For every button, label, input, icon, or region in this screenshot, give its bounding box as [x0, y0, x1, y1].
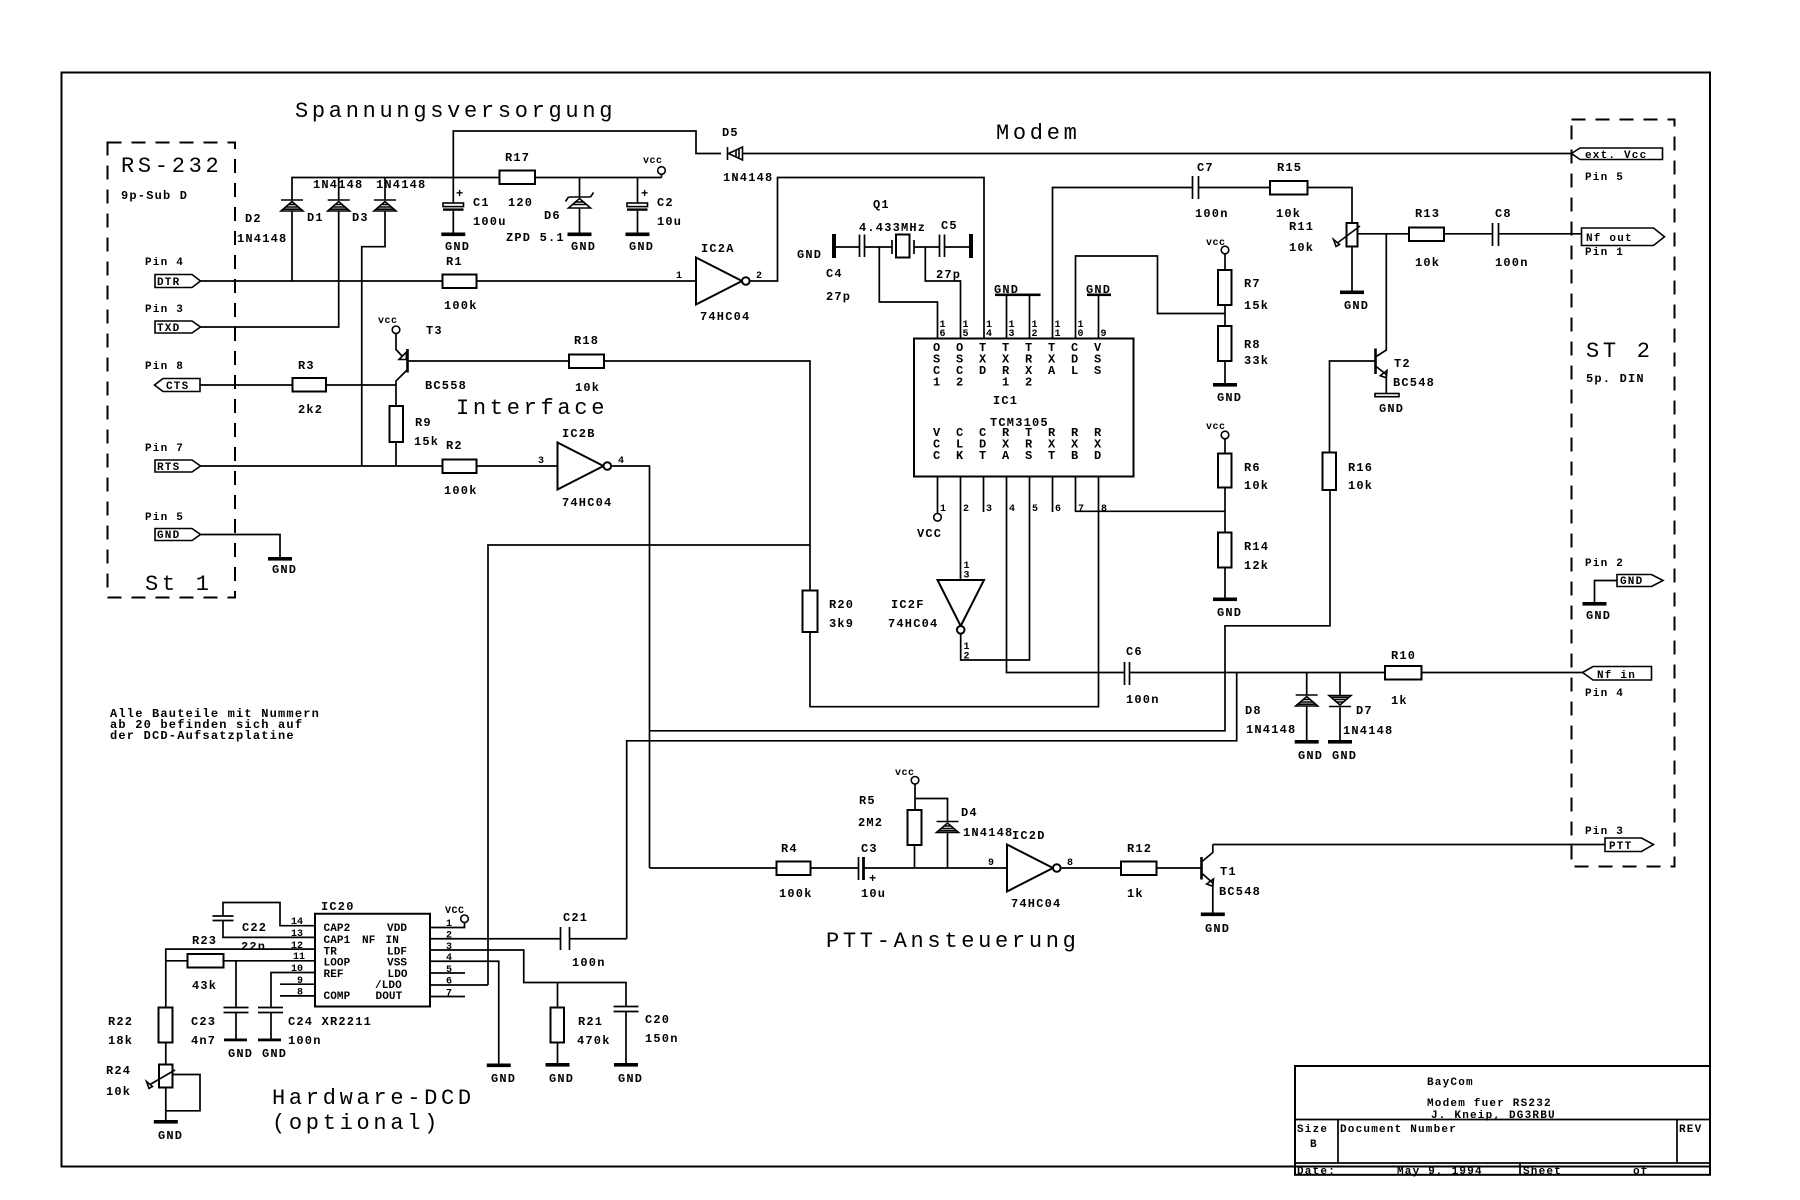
svg-text:C3: C3 — [861, 842, 878, 856]
svg-text:2: 2 — [1025, 376, 1033, 390]
svg-text:REV: REV — [1679, 1124, 1702, 1136]
svg-text:Pin 8: Pin 8 — [145, 361, 184, 373]
power symbol VCC (IC20 pin1) — [430, 906, 468, 928]
svg-text:C8: C8 — [1495, 207, 1512, 221]
svg-text:Nf in: Nf in — [1597, 670, 1636, 682]
wire R6 to R14 with tap to IC1 pin7 — [1076, 477, 1226, 533]
svg-text:A: A — [1002, 449, 1010, 463]
svg-text:8: 8 — [297, 988, 303, 999]
svg-text:T: T — [979, 449, 987, 463]
svg-text:9: 9 — [1101, 329, 1107, 340]
svg-text:Pin 1: Pin 1 — [1585, 247, 1624, 259]
ground (T1 emitter) — [1201, 913, 1230, 937]
resistor R9 — [390, 406, 440, 449]
svg-text:1: 1 — [676, 271, 682, 282]
svg-text:R24: R24 — [106, 1064, 131, 1078]
svg-text:Hardware-DCD: Hardware-DCD — [272, 1086, 475, 1111]
svg-text:22n: 22n — [241, 940, 266, 954]
resistor R4 — [777, 842, 813, 901]
svg-text:1: 1 — [1002, 376, 1010, 390]
svg-text:GND: GND — [262, 1047, 287, 1061]
svg-text:150n: 150n — [645, 1032, 679, 1046]
svg-text:L: L — [1071, 364, 1079, 378]
wire crystal to C5 — [914, 246, 940, 248]
capacitor C2 — [627, 178, 682, 233]
svg-text:4.433MHz: 4.433MHz — [859, 221, 926, 235]
svg-text:D: D — [979, 364, 987, 378]
ground wall (crystal left) — [797, 234, 836, 262]
wire R7 to R8 — [1224, 305, 1226, 326]
svg-text:R6: R6 — [1244, 461, 1261, 475]
svg-text:C6: C6 — [1126, 645, 1143, 659]
connector box St 1 (RS-232) dashed — [108, 143, 236, 598]
svg-text:Modem fuer RS232: Modem fuer RS232 — [1427, 1098, 1552, 1110]
svg-text:R18: R18 — [574, 334, 599, 348]
svg-text:10u: 10u — [657, 215, 682, 229]
svg-text:100k: 100k — [444, 299, 478, 313]
wire GND flag Pin2 to ground — [1595, 581, 1618, 603]
svg-text:1N4148: 1N4148 — [1246, 723, 1296, 737]
svg-text:BC548: BC548 — [1219, 885, 1261, 899]
svg-text:3: 3 — [986, 504, 992, 515]
svg-text:B: B — [1071, 449, 1079, 463]
wire R15 to R11 pot — [1308, 188, 1353, 224]
title block — [1295, 1066, 1710, 1178]
flag CTS Pin 8 — [145, 361, 200, 393]
svg-text:NF: NF — [362, 935, 375, 947]
svg-text:IC2F: IC2F — [891, 598, 925, 612]
svg-text:2k2: 2k2 — [298, 403, 323, 417]
IC20 right pin names — [362, 923, 408, 1003]
wire R14 to ground — [1224, 568, 1226, 598]
wire IC1 pin3 stub — [983, 477, 985, 513]
svg-text:R12: R12 — [1127, 842, 1152, 856]
svg-text:1N4148: 1N4148 — [237, 232, 287, 246]
svg-text:Pin 5: Pin 5 — [1585, 172, 1624, 184]
svg-text:C23: C23 — [191, 1015, 216, 1029]
wire R22 to R24 — [165, 1043, 167, 1065]
resistor R2 — [443, 439, 478, 498]
resistor R18 — [569, 334, 604, 395]
ground (R21) — [546, 1063, 575, 1086]
wire T2 base to R16 — [1330, 361, 1376, 453]
svg-text:DOUT: DOUT — [376, 991, 403, 1003]
crystal Q1 4.433MHz — [859, 198, 926, 258]
wire D3 to RTS — [362, 211, 385, 466]
ground (R14) — [1213, 598, 1242, 621]
transistor T2 BC548 — [1376, 234, 1436, 394]
svg-text:4: 4 — [446, 953, 452, 964]
svg-text:K: K — [956, 449, 964, 463]
svg-text:3: 3 — [964, 571, 970, 582]
IC20 left pin names — [324, 923, 351, 1003]
svg-text:ext. Vcc: ext. Vcc — [1585, 150, 1647, 162]
svg-text:6: 6 — [1055, 504, 1061, 515]
transistor T1 BC548 — [1202, 845, 1262, 913]
wire IC20 pin3 LDF to loop filter — [430, 950, 626, 1007]
ground (D6) — [568, 233, 597, 255]
svg-text:D7: D7 — [1356, 704, 1373, 718]
resistor R21 — [551, 1008, 611, 1049]
svg-text:TCM3105: TCM3105 — [990, 416, 1049, 430]
svg-text:R22: R22 — [108, 1015, 133, 1029]
IC U20 XR2211 body — [315, 900, 430, 1007]
svg-text:R8: R8 — [1244, 338, 1261, 352]
svg-text:St 1: St 1 — [145, 572, 213, 597]
svg-text:GND: GND — [618, 1072, 643, 1086]
zener diode D6 ZPD5.1 — [506, 178, 594, 246]
svg-text:IC1: IC1 — [993, 394, 1018, 408]
svg-text:DTR: DTR — [157, 277, 180, 289]
svg-text:3: 3 — [446, 942, 452, 953]
svg-text:5: 5 — [1032, 504, 1038, 515]
flag PTT Pin 3 — [1585, 826, 1654, 853]
wire R4 to C3 — [811, 867, 859, 869]
svg-text:C2: C2 — [657, 196, 674, 210]
svg-text:R14: R14 — [1244, 540, 1269, 554]
svg-text:C21: C21 — [563, 911, 588, 925]
svg-text:10k: 10k — [1415, 256, 1440, 270]
svg-text:D4: D4 — [961, 806, 978, 820]
resistor R6 — [1218, 454, 1269, 494]
wire Vcc rail top — [292, 178, 662, 201]
svg-text:BayCom: BayCom — [1427, 1077, 1474, 1089]
svg-text:Pin 3: Pin 3 — [1585, 826, 1624, 838]
resistor R16 — [1323, 453, 1374, 494]
wire RTS net — [201, 465, 443, 467]
wire IC20 pin10 to C24 — [271, 973, 315, 1008]
svg-text:1: 1 — [940, 504, 946, 515]
svg-text:GND: GND — [1217, 606, 1242, 620]
svg-text:Pin 7: Pin 7 — [145, 443, 184, 455]
op-amp IC2D inverter 74HC04 — [988, 829, 1073, 911]
svg-text:9p-Sub D: 9p-Sub D — [121, 189, 188, 203]
svg-text:Modem: Modem — [996, 121, 1081, 146]
svg-text:1: 1 — [933, 376, 941, 390]
svg-text:GND: GND — [158, 1129, 183, 1143]
power symbol vcc (main rail) — [643, 156, 665, 178]
resistor R14 — [1218, 533, 1269, 574]
svg-text:0: 0 — [1078, 329, 1084, 340]
svg-text:27p: 27p — [936, 268, 961, 282]
wire R11 wiper to R13 — [1358, 233, 1410, 235]
svg-text:RTS: RTS — [157, 462, 180, 474]
svg-text:IC20: IC20 — [321, 900, 355, 914]
wire R11 bottom to ground — [1351, 247, 1353, 291]
wire PTT drive line — [650, 867, 777, 869]
capacitor C20 — [614, 1007, 679, 1064]
svg-text:R3: R3 — [298, 359, 315, 373]
ground (T2 emitter) — [1375, 394, 1404, 417]
svg-text:27p: 27p — [826, 290, 851, 304]
svg-text:3: 3 — [538, 456, 544, 467]
svg-text:GND: GND — [1205, 922, 1230, 936]
resistor R1 — [443, 255, 478, 313]
ground (IC20 VSS) — [487, 1064, 516, 1087]
ground (ST2 Pin2) — [1583, 602, 1612, 623]
flag GND Pin 5 — [145, 512, 201, 542]
svg-text:T2: T2 — [1394, 357, 1411, 371]
svg-text:R4: R4 — [781, 842, 798, 856]
svg-text:vcc: vcc — [1206, 422, 1226, 433]
IC1 top pin numbers 16..9 — [940, 320, 1107, 340]
svg-text:2: 2 — [446, 931, 452, 942]
resistor R23 — [188, 934, 224, 993]
svg-text:4n7: 4n7 — [191, 1034, 216, 1048]
flag ext. Vcc Pin 5 — [1572, 148, 1663, 184]
svg-text:2M2: 2M2 — [858, 816, 883, 830]
svg-text:1N4148: 1N4148 — [376, 178, 426, 192]
capacitor C5 — [936, 219, 961, 282]
svg-text:GND: GND — [797, 248, 822, 262]
svg-text:33k: 33k — [1244, 354, 1269, 368]
svg-text:Pin 2: Pin 2 — [1585, 558, 1624, 570]
svg-text:100n: 100n — [572, 956, 606, 970]
power symbol vcc (R5/D4) — [895, 768, 948, 822]
wire R21 tap — [557, 983, 559, 1008]
svg-text:7: 7 — [1078, 504, 1084, 515]
svg-text:S: S — [1025, 449, 1033, 463]
svg-text:R23: R23 — [192, 934, 217, 948]
svg-text:T3: T3 — [426, 324, 443, 338]
svg-text:4: 4 — [986, 329, 992, 340]
svg-text:R10: R10 — [1391, 649, 1416, 663]
capacitor C8 — [1493, 207, 1529, 270]
IC20 left pin numbers — [291, 917, 305, 999]
svg-text:C7: C7 — [1197, 161, 1214, 175]
svg-text:R17: R17 — [505, 151, 530, 165]
svg-text:1k: 1k — [1127, 887, 1144, 901]
svg-text:13: 13 — [291, 929, 303, 940]
svg-text:IC2A: IC2A — [701, 242, 735, 256]
resistor R20 — [803, 591, 855, 633]
IC1 top pin names OSC1 OSC2 TXD TXR1 TRX2 TXA CDL VSS — [933, 341, 1102, 390]
svg-text:+: + — [456, 187, 464, 201]
svg-text:vcc: vcc — [1206, 238, 1226, 249]
svg-text:Nf out: Nf out — [1586, 233, 1633, 245]
svg-text:1N4148: 1N4148 — [963, 826, 1013, 840]
svg-text:R11: R11 — [1289, 220, 1314, 234]
wire IC2F output to IC1 pin5 — [961, 477, 1030, 661]
svg-text:C1: C1 — [473, 196, 490, 210]
wire R1 to IC2A input — [477, 280, 697, 282]
wire C3 to IC2D input — [864, 867, 1008, 869]
svg-text:T: T — [1048, 449, 1056, 463]
wire IC20 pin9 stub — [280, 983, 315, 985]
svg-text:100k: 100k — [779, 887, 813, 901]
wire R8 to ground — [1224, 361, 1226, 383]
svg-text:Size: Size — [1297, 1124, 1328, 1136]
resistor R12 — [1121, 842, 1157, 901]
wire R20 bottom to IC1 pin8 — [810, 477, 1099, 707]
svg-text:R7: R7 — [1244, 277, 1261, 291]
wire C7 to R15 — [1199, 187, 1271, 189]
wire IC1 pin11 CDL filter line — [1053, 188, 1193, 339]
svg-text:GND: GND — [228, 1047, 253, 1061]
svg-text:RS-232: RS-232 — [121, 154, 222, 179]
wire osc1 tap to IC1 pin16 — [879, 247, 937, 339]
svg-text:GND: GND — [445, 240, 470, 254]
diode D7 — [1329, 673, 1393, 741]
svg-text:VDD: VDD — [387, 923, 407, 935]
wire IC1 pin10 to R7/R8 junction — [1076, 256, 1226, 339]
svg-text:GND: GND — [1298, 749, 1323, 763]
svg-text:R15: R15 — [1277, 161, 1302, 175]
wire TXD net — [201, 211, 339, 327]
svg-text:5p. DIN: 5p. DIN — [1586, 372, 1645, 386]
resistor R10 — [1385, 649, 1422, 708]
flag Nf in Pin 4 — [1583, 667, 1652, 701]
potentiometer R11 — [1289, 220, 1360, 255]
svg-text:of: of — [1633, 1166, 1649, 1178]
power symbol vcc (R7) — [1206, 238, 1229, 270]
svg-text:vcc: vcc — [643, 156, 663, 167]
svg-text:CTS: CTS — [166, 381, 189, 393]
svg-text:GND: GND — [491, 1072, 516, 1086]
IC20 right pin numbers — [446, 919, 452, 1000]
svg-text:9: 9 — [988, 858, 994, 869]
svg-text:2: 2 — [1032, 329, 1038, 340]
svg-text:TXD: TXD — [157, 323, 180, 335]
wire C21 to Nf in branch — [570, 938, 627, 940]
svg-text:R20: R20 — [829, 598, 854, 612]
power symbol vcc (R6) — [1206, 422, 1229, 454]
svg-text:GND: GND — [1379, 402, 1404, 416]
wire GND flag to ground — [201, 535, 281, 558]
capacitor C3 — [859, 842, 887, 901]
svg-text:PTT-Ansteuerung: PTT-Ansteuerung — [826, 929, 1080, 954]
wire D5 feed line — [453, 131, 721, 178]
wire CTS net — [200, 384, 396, 386]
svg-text:Q1: Q1 — [873, 198, 890, 212]
resistor R5 — [858, 794, 922, 845]
svg-text:VCC: VCC — [917, 527, 942, 541]
svg-text:Pin 5: Pin 5 — [145, 512, 184, 524]
svg-text:ST 2: ST 2 — [1586, 339, 1654, 364]
svg-text:D: D — [1094, 449, 1102, 463]
svg-text:18k: 18k — [108, 1034, 133, 1048]
svg-text:C24 XR2211: C24 XR2211 — [288, 1015, 372, 1029]
resistor R13 — [1409, 207, 1444, 270]
svg-text:VCC: VCC — [445, 906, 465, 917]
svg-text:2: 2 — [963, 504, 969, 515]
wire IC20 pin8 stub — [280, 995, 315, 997]
ground (R24) — [154, 1120, 183, 1143]
op-amp IC2A inverter 74HC04 — [676, 242, 762, 324]
svg-text:CAP1: CAP1 — [324, 935, 351, 947]
svg-text:10k: 10k — [1348, 479, 1373, 493]
svg-text:D1: D1 — [307, 211, 324, 225]
resistor R7 — [1218, 270, 1269, 313]
ground wall (crystal right) — [969, 234, 973, 258]
flag Nf out Pin 1 — [1582, 228, 1665, 259]
capacitor C7 — [1193, 161, 1229, 221]
svg-text:100n: 100n — [288, 1034, 322, 1048]
svg-text:1N4148: 1N4148 — [1343, 724, 1393, 738]
svg-text:VSS: VSS — [387, 957, 407, 969]
IC1 pin1 VCC stub — [917, 477, 942, 542]
ground (IC1 pins 13,12 top bar) — [994, 283, 1041, 339]
wire IC2B output net (RTS inverted) — [611, 466, 1330, 868]
svg-text:IC2D: IC2D — [1012, 829, 1046, 843]
wire Nf in branch to DCD input — [627, 673, 1237, 939]
wire R12 to T1 base — [1157, 867, 1202, 869]
diode D1 — [307, 178, 363, 226]
wire IC1 pin2 CLK to IC2F — [960, 477, 962, 581]
svg-text:Pin 4: Pin 4 — [1585, 688, 1624, 700]
diode D5 — [722, 126, 1572, 185]
wire IC2A output to TCM3105 TXD — [750, 178, 984, 339]
svg-text:D5: D5 — [722, 126, 739, 140]
capacitor C6 — [1125, 645, 1160, 707]
svg-text:J. Kneip, DG3RBU: J. Kneip, DG3RBU — [1431, 1110, 1556, 1122]
note text DCD-Aufsatzplatine — [110, 707, 320, 743]
svg-text:T1: T1 — [1220, 865, 1237, 879]
svg-text:15k: 15k — [414, 435, 439, 449]
resistor R22 — [108, 1008, 173, 1049]
wire IC1 pin4 RXA to Nf in line — [1007, 477, 1125, 673]
wire gnd wall to C4 — [836, 246, 860, 248]
ground (C1) — [441, 233, 470, 255]
ground (St1 GND) — [268, 557, 297, 577]
svg-text:12k: 12k — [1244, 559, 1269, 573]
svg-text:100n: 100n — [1126, 693, 1160, 707]
ground (C20) — [614, 1063, 643, 1086]
svg-text:BC558: BC558 — [425, 379, 467, 393]
svg-text:100n: 100n — [1495, 256, 1529, 270]
svg-text:1N4148: 1N4148 — [723, 171, 773, 185]
resistor R15 — [1270, 161, 1308, 221]
svg-text:GND: GND — [1344, 299, 1369, 313]
svg-text:R13: R13 — [1415, 207, 1440, 221]
svg-text:R1: R1 — [446, 255, 463, 269]
svg-text:7: 7 — [446, 989, 452, 1000]
flag RTS Pin 7 — [145, 443, 201, 474]
resistor R17 — [500, 151, 536, 210]
resistor R3 — [293, 359, 327, 417]
svg-text:74HC04: 74HC04 — [700, 310, 750, 324]
svg-text:C20: C20 — [645, 1013, 670, 1027]
svg-text:74HC04: 74HC04 — [562, 496, 612, 510]
svg-text:A: A — [1048, 364, 1056, 378]
svg-text:S: S — [1094, 364, 1102, 378]
wire IC2D output to R12 — [1061, 867, 1121, 869]
IC U1 TCM3105 body — [914, 339, 1134, 477]
wire Nf in line C6 to R10 — [1130, 672, 1386, 674]
capacitor C4 — [826, 235, 865, 305]
wire IC20 pin14 to C22 top — [223, 903, 315, 926]
capacitor C1 — [443, 178, 507, 233]
svg-text:10k: 10k — [106, 1085, 131, 1099]
svg-text:R21: R21 — [578, 1015, 603, 1029]
svg-text:B: B — [1310, 1139, 1318, 1151]
wire C22 bottom to IC20 pin13 — [223, 921, 315, 938]
svg-text:IN: IN — [386, 935, 399, 947]
svg-text:3k9: 3k9 — [829, 617, 854, 631]
wire R9 to RTS — [395, 442, 397, 466]
svg-text:R16: R16 — [1348, 461, 1373, 475]
IC1 bottom pin numbers 1..8 — [940, 504, 1107, 515]
flag GND Pin 2 — [1585, 558, 1663, 588]
svg-text:D3: D3 — [352, 211, 369, 225]
diode D3 — [352, 178, 426, 226]
svg-text:3: 3 — [1009, 329, 1015, 340]
ground (IC1 pin 9 top bar) — [1086, 283, 1111, 339]
wire DTR net — [201, 280, 443, 282]
svg-text:R2: R2 — [446, 439, 463, 453]
diode D8 — [1245, 673, 1318, 741]
svg-text:Sheet: Sheet — [1523, 1166, 1562, 1178]
